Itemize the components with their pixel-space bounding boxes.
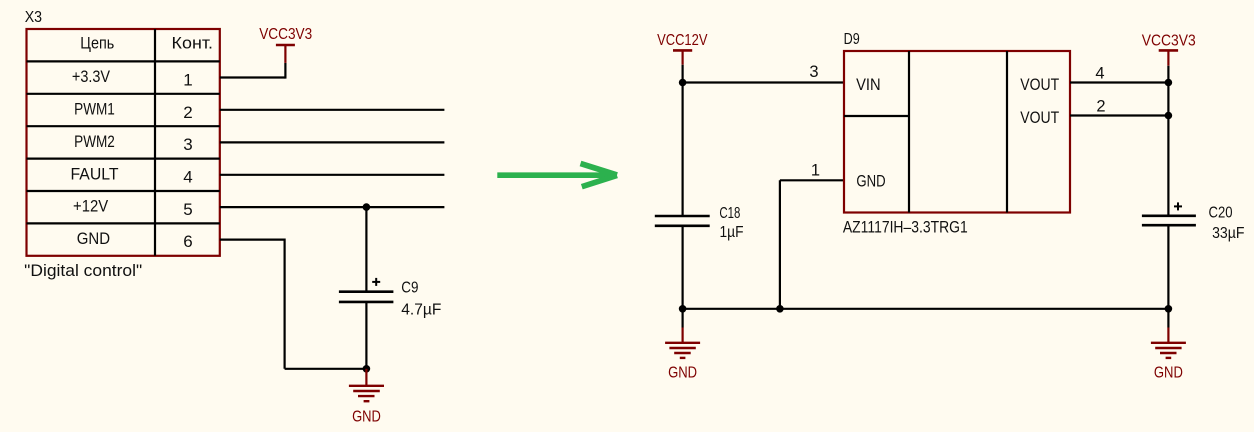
- svg-text:C9: C9: [401, 279, 418, 296]
- svg-text:5: 5: [183, 200, 192, 219]
- svg-text:GND: GND: [1154, 365, 1183, 382]
- power symbol VCC3V3 right stub: [1167, 50, 1169, 65]
- wire pin1 vertical: [284, 63, 286, 79]
- wire pin5: [220, 206, 445, 208]
- table row separator 1: [27, 60, 220, 62]
- svg-text:C20: C20: [1209, 205, 1233, 222]
- table row separator 4: [27, 158, 220, 160]
- power symbol VCC12V bar: [673, 49, 692, 52]
- wire C9 top: [365, 207, 367, 292]
- wire pin4: [220, 174, 445, 176]
- svg-text:VOUT: VOUT: [1020, 109, 1059, 127]
- wire pin6 vertical: [284, 239, 286, 369]
- ground symbol mid red stub: [681, 328, 683, 343]
- junction C9 bottom/GND: [363, 365, 371, 373]
- svg-text:GND: GND: [856, 173, 885, 191]
- wire pin3 to VIN: [683, 81, 844, 83]
- power symbol VCC12V stub: [681, 50, 683, 64]
- svg-text:+3.3V: +3.3V: [72, 68, 110, 86]
- svg-text:D9: D9: [844, 31, 860, 48]
- table row separator 6: [27, 222, 220, 224]
- power symbol VCC3V3 right bar: [1159, 49, 1178, 52]
- ground symbol mid stub wire: [681, 309, 683, 328]
- svg-text:1: 1: [183, 70, 192, 89]
- svg-text:4: 4: [1095, 64, 1104, 82]
- capacitor C9 plus sign: [372, 278, 380, 286]
- svg-text:2: 2: [1096, 98, 1105, 116]
- svg-text:FAULT: FAULT: [71, 165, 119, 183]
- ground symbol left stub: [365, 369, 367, 386]
- svg-text:GND: GND: [352, 409, 381, 426]
- capacitor C18 top plate: [655, 215, 710, 218]
- svg-text:AZ1117IH–3.3TRG1: AZ1117IH–3.3TRG1: [843, 219, 968, 237]
- wire VCC12V vertical down to C18: [681, 65, 683, 216]
- wire pin1 to GND pin: [780, 179, 844, 181]
- regulator inner divider 2: [1006, 51, 1008, 213]
- svg-text:VCC3V3: VCC3V3: [1142, 32, 1196, 49]
- wire VOUT pin4: [1070, 81, 1168, 83]
- svg-text:3: 3: [183, 135, 192, 154]
- wire pin6 horizontal: [220, 239, 285, 241]
- svg-text:2: 2: [183, 103, 192, 122]
- svg-text:VOUT: VOUT: [1020, 76, 1059, 94]
- svg-text:Конт.: Конт.: [172, 34, 214, 52]
- ground symbol right red stub: [1167, 328, 1169, 343]
- svg-text:4: 4: [183, 168, 192, 187]
- wire pin6 bottom horizontal: [285, 368, 367, 370]
- svg-text:1: 1: [811, 161, 820, 179]
- regulator D9 body: [844, 51, 1070, 213]
- svg-text:PWM2: PWM2: [74, 133, 115, 151]
- ground rail wire: [683, 308, 1169, 310]
- wire C20 bottom: [1167, 225, 1169, 309]
- ground symbol right stub wire: [1167, 309, 1169, 328]
- capacitor C18 bottom plate: [655, 225, 710, 228]
- ground symbol right bars: [1151, 343, 1186, 358]
- table row separator 2: [27, 93, 220, 95]
- capacitor C9 top plate: [339, 290, 394, 293]
- wire GND pin vertical: [779, 180, 781, 308]
- svg-text:1µF: 1µF: [720, 224, 744, 241]
- svg-text:PWM1: PWM1: [74, 101, 115, 119]
- wire pin2: [220, 109, 445, 111]
- capacitor C9 bottom plate: [339, 301, 394, 304]
- connector X3 table outline: [27, 29, 220, 256]
- svg-text:"Digital control": "Digital control": [24, 262, 142, 280]
- junction pin2: [1165, 112, 1173, 120]
- wire VCC3V3 vertical down to C20: [1167, 66, 1169, 216]
- svg-text:VIN: VIN: [856, 76, 881, 94]
- capacitor C20 top plate: [1142, 215, 1196, 218]
- svg-text:3: 3: [809, 63, 818, 81]
- svg-text:33µF: 33µF: [1212, 225, 1245, 242]
- svg-text:+12V: +12V: [73, 198, 108, 216]
- junction C20/rail: [1165, 305, 1173, 313]
- svg-text:Цепь: Цепь: [80, 34, 114, 52]
- svg-text:GND: GND: [77, 230, 110, 248]
- svg-text:6: 6: [183, 232, 192, 251]
- junction pin4/VCC3V3: [1165, 79, 1173, 87]
- regulator inner divider 1: [908, 51, 910, 213]
- junction C18/rail: [679, 305, 687, 313]
- table row separator 3: [27, 125, 220, 127]
- junction VCC12V/pin3: [679, 79, 687, 87]
- wire VOUT pin2: [1070, 114, 1168, 116]
- table column divider: [154, 29, 156, 256]
- wire pin1 horizontal: [220, 76, 286, 78]
- capacitor C20 bottom plate: [1142, 224, 1196, 227]
- power symbol VCC3V3 left bar: [276, 44, 295, 47]
- svg-text:4.7µF: 4.7µF: [401, 301, 441, 318]
- capacitor C20 plus sign: [1174, 202, 1182, 210]
- power symbol VCC3V3 left stub: [284, 45, 286, 63]
- table row separator 5: [27, 190, 220, 192]
- junction pin5/C9: [363, 203, 371, 211]
- green arrow: [497, 164, 617, 187]
- svg-text:X3: X3: [25, 9, 42, 26]
- junction GND pin/rail: [776, 305, 784, 313]
- svg-text:GND: GND: [668, 365, 697, 382]
- svg-text:C18: C18: [719, 205, 740, 222]
- regulator inner horizontal divider: [844, 115, 909, 117]
- ground symbol left bars: [349, 386, 384, 401]
- wire C9 bottom: [365, 302, 367, 369]
- ground symbol mid bars: [665, 343, 700, 358]
- wire pin3: [220, 141, 445, 143]
- svg-text:VCC3V3: VCC3V3: [259, 26, 312, 43]
- wire C18 bottom: [681, 226, 683, 309]
- svg-text:VCC12V: VCC12V: [657, 32, 708, 49]
